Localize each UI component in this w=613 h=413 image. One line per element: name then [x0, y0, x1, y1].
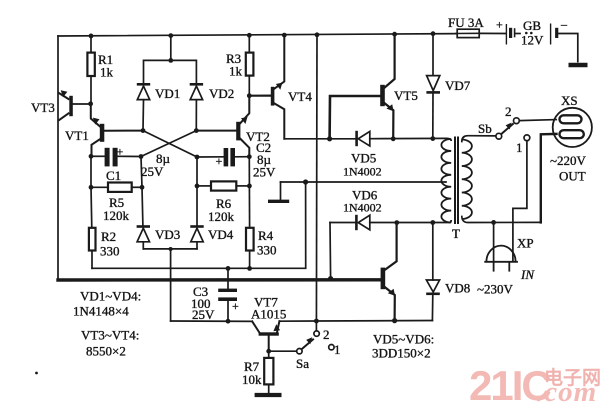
svg-text:+: +: [496, 18, 503, 32]
diode VD4: [190, 227, 203, 242]
svg-text:2: 2: [323, 327, 330, 342]
switch Sa contact 2: [314, 331, 319, 336]
diode VD6: [356, 215, 369, 230]
label C3: [191, 284, 215, 322]
label VT2: [246, 129, 270, 144]
wire cross diagonal C1 row to VT2 base: [141, 131, 196, 157]
label Sb contact 1: [516, 140, 523, 155]
caption VD1-VD4: [73, 289, 141, 319]
wire VT5 emitter lead: [385, 103, 394, 138]
svg-text:VD1~VD4:: VD1~VD4:: [80, 289, 141, 304]
wire Sb contact1 to XP right pin: [513, 141, 527, 261]
socket XS: [553, 108, 592, 147]
wire XP left pin drop: [493, 222, 495, 260]
wire VT5 base: [330, 96, 381, 139]
ground R7: [255, 393, 282, 397]
label VD1: [155, 86, 180, 101]
svg-text:XS: XS: [561, 93, 578, 108]
stray dot: [35, 372, 38, 375]
wire VT2 emitter lead: [240, 96, 249, 124]
fuse FU: [455, 29, 482, 37]
wire VT7 row: [171, 320, 433, 323]
wire VT1 collector lead: [92, 139, 100, 156]
diode VD2: [190, 84, 203, 99]
svg-text:VD3: VD3: [155, 227, 180, 242]
svg-text:1N4002: 1N4002: [343, 165, 382, 179]
diode VD3: [137, 227, 150, 242]
svg-text:IN: IN: [520, 267, 535, 282]
label R3: [226, 51, 243, 79]
svg-text:VD5~VD6:: VD5~VD6:: [373, 332, 434, 347]
wire battery to ground corner: [558, 34, 578, 62]
label VD7: [445, 78, 471, 93]
transistor VT1: [93, 118, 104, 142]
wire R2 column: [91, 156, 92, 268]
label VD3: [155, 227, 180, 242]
plug XP: [484, 246, 518, 272]
label R6: [208, 196, 235, 224]
label R2: [100, 229, 120, 259]
transformer T primary winding: [441, 138, 451, 222]
diode VD5: [357, 131, 370, 146]
wire secondary bottom to XS: [462, 134, 557, 223]
svg-text:3DD150×2: 3DD150×2: [372, 346, 431, 361]
capacitor C2: [216, 148, 236, 168]
label Sa: [296, 356, 309, 371]
wire VT5 collector lead: [385, 34, 395, 87]
label C2: [253, 140, 276, 180]
node dots: [35, 31, 496, 374]
wire Sb contact2 to XS: [519, 120, 556, 121]
svg-text:1N4148×4: 1N4148×4: [73, 304, 129, 319]
label VT7: [251, 295, 286, 322]
svg-text:C1: C1: [106, 168, 121, 183]
svg-text:Sa: Sa: [296, 356, 309, 371]
transistor VT2: [236, 117, 247, 141]
power transistor Q6 3DD150: [381, 268, 395, 296]
label FU: [448, 15, 484, 30]
diode VD7: [426, 76, 440, 93]
resistor R5: [108, 183, 132, 192]
label Sb contact 2: [505, 104, 512, 119]
watermark 21IC.com: [469, 362, 601, 409]
label VD4: [208, 227, 234, 242]
svg-text:25V: 25V: [253, 165, 276, 180]
svg-text:25V: 25V: [141, 164, 164, 179]
label battery plus: [496, 18, 503, 32]
transistor VT7: [259, 324, 281, 335]
label C1 value: [141, 151, 171, 179]
resistor R7: [264, 358, 273, 385]
label GB: [521, 18, 544, 48]
svg-text:+: +: [117, 145, 124, 159]
label R4: [257, 228, 277, 258]
label T: [452, 226, 460, 241]
wire R6 row: [197, 185, 249, 187]
wire R7 column: [268, 351, 270, 393]
label VT1: [65, 128, 89, 143]
switch Sb pole: [496, 123, 514, 140]
svg-text:330: 330: [257, 243, 277, 258]
wire VT2 node to VT4 base: [249, 94, 270, 96]
wire bottom thick bus: [58, 278, 381, 282]
switch Sa contact 1: [329, 345, 334, 350]
svg-text:12V: 12V: [521, 33, 544, 48]
svg-text:–: –: [560, 17, 568, 31]
svg-text:1: 1: [516, 140, 523, 155]
wire fuse to battery: [481, 32, 506, 34]
caption VD5-VD6: [372, 332, 434, 361]
transistor VT5: [380, 85, 393, 111]
svg-text:VT5: VT5: [394, 88, 418, 103]
wire secondary top to Sb pole: [462, 136, 496, 142]
svg-text:+: +: [232, 299, 239, 313]
label 220V OUT: [550, 153, 587, 184]
svg-text:2: 2: [505, 104, 512, 119]
wire VT1 base lead: [104, 130, 143, 132]
capacitor C3: [218, 289, 239, 313]
label VD5: [343, 151, 382, 179]
resistor R2: [89, 228, 96, 251]
wire C1 row: [91, 155, 141, 157]
svg-text:VD7: VD7: [445, 78, 471, 93]
label XS: [561, 93, 578, 108]
svg-text:1k: 1k: [100, 65, 114, 80]
switch Sb contact 2: [514, 118, 520, 124]
label VT3: [31, 100, 55, 115]
wire left rail: [57, 36, 59, 279]
wire VT4 collector row: [284, 137, 446, 139]
svg-text:VD5: VD5: [351, 151, 376, 166]
wire VD1 bottom lead: [142, 100, 145, 131]
wire VD1 VD2 top tie: [144, 36, 197, 84]
svg-text:1N4002: 1N4002: [343, 201, 382, 215]
svg-text:VD1: VD1: [155, 86, 180, 101]
wire ground stub centre tap: [280, 182, 282, 200]
ground battery: [569, 63, 588, 68]
wire VT7 base to Sa pole: [269, 350, 297, 352]
svg-text:T: T: [452, 226, 460, 241]
wire C2 row: [197, 156, 249, 158]
wire VT2 collector lead: [240, 139, 249, 157]
battery dots: [525, 32, 533, 35]
label R1: [98, 52, 114, 80]
transformer T core: [455, 137, 458, 225]
svg-text:GB: GB: [523, 18, 541, 33]
label VD6: [343, 188, 382, 215]
transistor VT3: [58, 90, 73, 120]
label VT4: [288, 89, 312, 104]
battery GB cell2: [551, 24, 557, 45]
svg-text:120k: 120k: [103, 208, 130, 223]
transistor VT4: [271, 83, 283, 106]
svg-text:10k: 10k: [242, 372, 262, 387]
wire VT7 base lead: [268, 336, 270, 352]
wire transformer centre tap row: [281, 181, 447, 183]
svg-text:OUT: OUT: [559, 169, 586, 184]
wire VT1 emitter lead: [91, 104, 100, 127]
label VD2: [209, 86, 234, 101]
wire R3 column: [248, 35, 250, 95]
wire R1 column: [90, 36, 92, 104]
svg-text:330: 330: [100, 244, 120, 259]
svg-text:Sb: Sb: [478, 121, 492, 136]
capacitor C1: [105, 145, 124, 167]
switch Sb contact 1: [524, 135, 530, 141]
svg-text:VD2: VD2: [209, 86, 234, 101]
wire VD7 column: [432, 34, 434, 139]
label R5: [103, 195, 130, 223]
svg-text:VT3: VT3: [31, 100, 55, 115]
wire Q6 collector lead: [385, 223, 396, 270]
wire left cross column to R5 and VD3: [141, 157, 143, 249]
switch Sa pole: [297, 337, 314, 354]
transformer T secondary winding: [462, 140, 472, 220]
resistor R6: [211, 181, 236, 190]
battery GB cell1: [506, 24, 510, 45]
wire VT2 base lead: [196, 130, 236, 132]
wire VT4 collector lead: [274, 103, 284, 138]
diode VD1: [137, 84, 150, 99]
wire Q6 emitter lead: [385, 287, 395, 320]
wire lower box row: [92, 182, 306, 268]
svg-text:VT4: VT4: [288, 89, 312, 104]
wire VD2 bottom lead: [195, 100, 197, 131]
label battery minus: [560, 17, 568, 31]
wire drop from VD3 VD4 tie to VT7 row: [170, 249, 172, 321]
wire top +12V rail: [58, 34, 457, 36]
svg-text:25V: 25V: [192, 307, 215, 322]
svg-text:8550×2: 8550×2: [86, 344, 126, 359]
label C1: [106, 168, 121, 183]
wire VT7 collector lead: [252, 321, 259, 332]
svg-text:XP: XP: [517, 236, 534, 251]
wire R4 column: [248, 157, 250, 269]
label Sa contact 1: [334, 342, 341, 357]
label XP: [517, 236, 534, 251]
svg-text:~230V: ~230V: [477, 282, 514, 297]
label 230V: [477, 282, 514, 297]
resistor R1: [87, 53, 94, 76]
svg-text:A1015: A1015: [251, 307, 286, 322]
resistor R3: [246, 53, 254, 76]
wire VT3 base: [73, 103, 91, 105]
svg-text:VD4: VD4: [208, 227, 234, 242]
svg-text:120k: 120k: [208, 209, 235, 224]
label Sb: [478, 121, 492, 136]
label R7: [242, 359, 262, 387]
resistor R4: [246, 228, 254, 251]
label VT5: [394, 88, 418, 103]
svg-text:FU 3A: FU 3A: [448, 15, 484, 30]
svg-text:~220V: ~220V: [550, 153, 587, 168]
diode VD8: [426, 280, 440, 294]
label Sa contact 2: [323, 327, 330, 342]
label VD8: [445, 281, 470, 296]
wire cross diagonal VT1 base to C2 row: [143, 131, 197, 157]
svg-text:R4: R4: [258, 228, 274, 243]
wire VT4 emitter lead: [274, 35, 284, 89]
caption VT3-VT4: [81, 328, 139, 359]
svg-text:R2: R2: [101, 229, 116, 244]
wire primary bottom row: [330, 223, 449, 279]
svg-text:1: 1: [334, 342, 341, 357]
wire VT7 emitter lead: [277, 321, 279, 332]
ground centre tap: [268, 200, 289, 203]
svg-text:1k: 1k: [229, 64, 243, 79]
label IN: [520, 267, 535, 282]
svg-text:VT3~VT4:: VT3~VT4:: [81, 328, 139, 343]
svg-text:VD8: VD8: [445, 281, 470, 296]
wire battery inter-cell stub: [515, 29, 520, 37]
wire line A rail to Sa contact2: [315, 35, 318, 331]
svg-text:+: +: [216, 154, 223, 168]
svg-text:.com: .com: [536, 376, 597, 408]
wire VD8 column: [431, 223, 433, 321]
wire right cross column to R6 and VD4: [196, 157, 198, 249]
wire VD3 VD4 bottom tie: [143, 248, 197, 250]
wire C3 leads: [227, 268, 229, 321]
svg-text:VT1: VT1: [65, 128, 89, 143]
wire R5 row: [91, 186, 142, 188]
